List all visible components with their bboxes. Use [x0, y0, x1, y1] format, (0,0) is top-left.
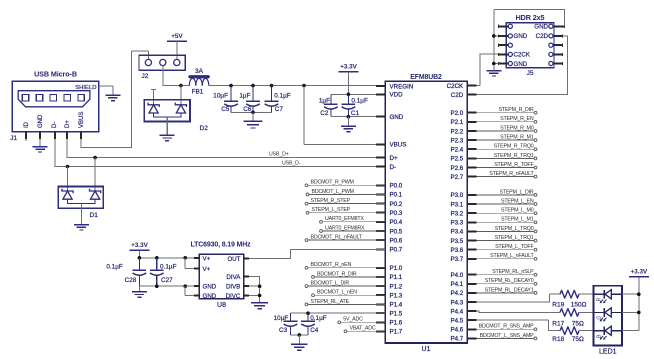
net label STEPM_R_EN at U1 right	[476, 116, 536, 123]
svg-text:STEPM_R_M0: STEPM_R_M0	[500, 125, 534, 131]
svg-text:GND: GND	[390, 114, 404, 121]
svg-text:P0.1: P0.1	[390, 192, 403, 199]
svg-text:P2.3: P2.3	[450, 137, 463, 144]
diode D1 refdes	[90, 212, 99, 219]
wire +5V to J2	[176, 41, 178, 59]
svg-text:D2: D2	[200, 125, 209, 132]
node junction C27 top	[155, 256, 159, 260]
svg-text:STEPM_R_TRQ1: STEPM_R_TRQ1	[494, 153, 534, 159]
svg-text:P3.6: P3.6	[450, 247, 463, 254]
net label BDCMOT_R_PWM at U1 left	[305, 180, 385, 187]
svg-text:VBAT_ADC: VBAT_ADC	[350, 326, 376, 332]
wire C2CK (U1 to J5)	[476, 54, 498, 86]
connector J1 pin stubs	[26, 132, 81, 140]
svg-text:VREGIN: VREGIN	[390, 83, 414, 90]
svg-text:VBUS: VBUS	[79, 112, 85, 128]
svg-text:STEPM_L_EN: STEPM_L_EN	[501, 198, 534, 204]
svg-text:0.1µF: 0.1µF	[106, 264, 123, 271]
svg-text:C6: C6	[243, 106, 252, 113]
LED LED1 refdes	[599, 349, 617, 356]
svg-text:DIVC: DIVC	[226, 293, 241, 300]
svg-text:LTC6930, 8.19 MHz: LTC6930, 8.19 MHz	[191, 242, 252, 249]
node junction D+ / D1	[93, 156, 97, 160]
svg-text:C7: C7	[275, 106, 284, 113]
power +3.3V at LED1	[629, 269, 649, 277]
svg-text:3A: 3A	[195, 68, 204, 75]
wire R19 to LED1	[579, 293, 594, 295]
resistor R18	[560, 327, 579, 335]
net label VBAT_ADC at U1 left	[344, 326, 385, 333]
connector J5 pin label GND row1 right	[534, 24, 548, 31]
svg-text:BDCMOT_L_SNS_AMP: BDCMOT_L_SNS_AMP	[480, 333, 535, 339]
svg-text:D-: D-	[52, 122, 58, 128]
svg-text:C27: C27	[161, 277, 173, 284]
diode D2 body	[144, 100, 190, 122]
net label STEPM_R_M1 at U1 right	[476, 135, 536, 142]
svg-text:C1: C1	[351, 110, 360, 117]
svg-text:P4.1: P4.1	[450, 281, 463, 288]
svg-text:D+: D+	[65, 120, 71, 128]
svg-text:1µF: 1µF	[319, 98, 330, 105]
svg-text:J2: J2	[142, 73, 149, 80]
svg-text:GND: GND	[38, 114, 44, 128]
connector J1 USB Micro-B title	[34, 70, 77, 79]
svg-text:STEPM_L_TRQ1: STEPM_L_TRQ1	[495, 235, 534, 241]
svg-text:UART0_EFM8RX: UART0_EFM8RX	[325, 225, 365, 231]
LED LED1 R element	[594, 290, 623, 304]
connector J1 contact pads	[22, 95, 84, 101]
svg-text:ID: ID	[24, 121, 30, 128]
svg-text:0.1µF: 0.1µF	[351, 98, 368, 105]
svg-text:R18: R18	[552, 336, 564, 343]
wire C3-C4 ground rail	[291, 334, 309, 336]
capacitor C1 refdes	[351, 110, 360, 117]
connector J1 refdes	[10, 135, 17, 142]
svg-text:STEPM_RL_DECAY0: STEPM_RL_DECAY0	[485, 278, 534, 284]
net label STEPM_R_STEP at U1 left	[305, 198, 385, 205]
node junction C6 bottom	[251, 111, 255, 115]
wire U8 GND2 hook	[185, 286, 194, 295]
power +3.3V at U8	[129, 242, 149, 250]
svg-text:P0.4: P0.4	[390, 219, 403, 226]
svg-text:R17: R17	[552, 321, 564, 328]
ferrite bead FB1 refdes	[192, 88, 204, 95]
ground at J1 shield	[105, 95, 120, 100]
net label 5V_ADC at U1 left	[338, 317, 385, 324]
net name USB_D+	[269, 151, 289, 157]
svg-text:STEPM_R_STEP: STEPM_R_STEP	[311, 198, 351, 204]
connector J5 body	[506, 23, 554, 68]
net label STEPM_L_M0 at U1 right	[476, 208, 536, 215]
svg-text:P1.0: P1.0	[390, 265, 403, 272]
svg-text:STEPM_R_nFAULT: STEPM_R_nFAULT	[489, 171, 534, 177]
wire V+ rail (C28 to U8)	[139, 257, 199, 259]
ground at J1 GND pin	[33, 147, 48, 152]
resistor R18 label	[552, 336, 584, 343]
connector J2 body	[139, 55, 185, 70]
svg-text:150Ω: 150Ω	[571, 302, 587, 309]
node junction C27 bottom	[155, 284, 159, 288]
wire C6 to ground	[252, 112, 254, 121]
svg-text:BDCMOT_R_DIR: BDCMOT_R_DIR	[317, 271, 357, 277]
capacitor C27 refdes	[161, 277, 173, 284]
svg-text:R19: R19	[552, 302, 564, 309]
node junction J5 row2	[492, 34, 496, 38]
wire J1 shield to ground	[99, 86, 113, 95]
capacitor C6 symbol	[246, 86, 260, 113]
net label BDCMOT_R_SNS_AMP at U1 right	[476, 324, 536, 331]
svg-text:U1: U1	[422, 346, 431, 353]
svg-text:GND: GND	[203, 293, 217, 300]
net label STEPM_R_M0 at U1 right	[476, 125, 536, 132]
svg-text:P1.4: P1.4	[390, 302, 403, 309]
svg-text:GND: GND	[534, 24, 548, 31]
svg-text:P4.5: P4.5	[450, 318, 463, 325]
svg-text:DIVA: DIVA	[226, 274, 241, 281]
wire VREGIN rail (FB1 to U1 VREGIN)	[209, 85, 385, 87]
wire U8 V+2 hook	[185, 258, 194, 269]
oscillator U8 pin names left	[203, 255, 217, 300]
wire U8 OUT to U1 P0.7	[249, 249, 385, 258]
svg-text:P3.4: P3.4	[450, 229, 463, 236]
node junction C5	[229, 84, 233, 88]
svg-text:C2: C2	[320, 110, 329, 117]
svg-text:0.1µF: 0.1µF	[310, 315, 327, 322]
svg-text:V+: V+	[203, 255, 211, 262]
svg-text:STEPM_RL_nSLP: STEPM_RL_nSLP	[492, 269, 534, 275]
wire U1 P4.4 to R17	[476, 311, 560, 312]
connector J2 refdes	[142, 73, 149, 80]
svg-text:+3.3V: +3.3V	[340, 64, 357, 71]
connector J5 pin label GND row2 left	[514, 33, 528, 40]
svg-text:+3.3V: +3.3V	[630, 269, 647, 276]
svg-text:STEPM_L_STEP: STEPM_L_STEP	[312, 207, 351, 213]
svg-text:BDCMOT_L_PWM: BDCMOT_L_PWM	[312, 189, 354, 195]
capacitor C7 refdes	[275, 106, 284, 113]
IC U1 right pin names	[447, 83, 464, 343]
connector J5 pin label C2D row2 right	[536, 33, 549, 40]
capacitor C28 refdes	[125, 277, 137, 284]
svg-text:P0.6: P0.6	[390, 237, 403, 244]
svg-text:P1.5: P1.5	[390, 311, 403, 318]
svg-text:VDD: VDD	[390, 92, 404, 99]
wire J5 ground rail	[493, 10, 495, 71]
wire C2D (U1 to J5)	[476, 36, 567, 95]
svg-text:STEPM_R_M1: STEPM_R_M1	[500, 135, 534, 141]
oscillator U8 left pin stubs	[194, 258, 199, 296]
node junction C1 top	[347, 93, 351, 97]
node junction VBUS branch	[302, 84, 306, 88]
svg-text:BDCMOT_R_nEN: BDCMOT_R_nEN	[311, 262, 352, 268]
wire J1 ID pin stub end	[25, 139, 27, 141]
net label BDCMOT_L_SNS_AMP at U1 right	[476, 333, 536, 340]
wire U1 P4.5 to R18	[476, 320, 560, 331]
capacitor C6 value	[239, 93, 250, 100]
capacitor C5 symbol	[224, 86, 238, 113]
capacitor C7 symbol	[265, 86, 279, 113]
power +3.3V at U1	[338, 64, 358, 72]
svg-text:10µF: 10µF	[213, 93, 228, 100]
wire USB_D- net (J1 D- to U1 D-)	[55, 139, 386, 166]
wire U8 DIVA-DIVC to ground	[249, 276, 259, 302]
capacitor C4 value	[310, 315, 327, 322]
net label BDCMOT_R_DIR at U1 left	[312, 271, 386, 278]
wire D2 right pin	[180, 86, 182, 105]
wire J5 row5 tap	[494, 63, 499, 65]
net label STEPM_L_TOFF at U1 right	[476, 244, 536, 251]
svg-text:UART0_EFM8TX: UART0_EFM8TX	[325, 216, 364, 222]
svg-text:STEPM_R_TOFF: STEPM_R_TOFF	[494, 162, 534, 168]
svg-text:D1: D1	[90, 212, 99, 219]
svg-text:GND: GND	[514, 61, 528, 68]
resistor R17 label	[552, 321, 584, 328]
svg-text:STEPM_L_TRQ0: STEPM_L_TRQ0	[495, 226, 534, 232]
svg-text:BDCMOT_RL_nFAULT: BDCMOT_RL_nFAULT	[311, 235, 363, 241]
svg-text:P2.1: P2.1	[450, 119, 463, 126]
svg-text:P4.6: P4.6	[450, 327, 463, 334]
wire GND rail (C2 to U1 GND)	[331, 116, 385, 118]
connector J5 HDR 2x5 title	[516, 13, 545, 22]
connector J1 receptacle outline	[18, 91, 90, 107]
diode D1 right element	[90, 189, 101, 199]
ground at U8 DIV pins	[251, 303, 268, 309]
capacitor C27 symbol	[150, 258, 164, 286]
connector J1 SHIELD pin label	[75, 85, 96, 91]
svg-text:BDCMOT_L_nEN: BDCMOT_L_nEN	[317, 290, 357, 296]
capacitor C1 value	[351, 98, 368, 105]
wire D1 right pin	[94, 158, 96, 191]
svg-text:P1.3: P1.3	[390, 293, 403, 300]
svg-text:0.1µF: 0.1µF	[274, 93, 291, 100]
diode D2 right element	[175, 103, 186, 113]
svg-text:STEPM_L_nFAULT: STEPM_L_nFAULT	[490, 253, 534, 259]
oscillator U8 title	[191, 242, 252, 249]
svg-text:P3.5: P3.5	[450, 238, 463, 245]
wire +3.3V to U8 V+ rail	[138, 250, 140, 257]
node junction DIVC	[258, 294, 262, 298]
wire D2 internal anodes	[154, 113, 181, 117]
svg-text:P2.6: P2.6	[450, 165, 463, 172]
net label STEPM_R_TRQ0 at U1 right	[476, 144, 536, 151]
svg-text:P3.2: P3.2	[450, 211, 463, 218]
ground at D2	[160, 135, 175, 140]
connector J1 body	[12, 81, 98, 132]
wire J5 top loop to GND pin	[494, 10, 565, 27]
oscillator U8 body	[199, 254, 244, 299]
capacitor C2 refdes	[320, 110, 329, 117]
net label UART0_EFM8RX at U1 left	[320, 225, 386, 232]
net label STEPM_RL_ATE at U1 left	[305, 299, 385, 306]
svg-text:BDCMOT_L_DIR: BDCMOT_L_DIR	[311, 281, 350, 287]
svg-text:10µF: 10µF	[274, 315, 289, 322]
connector J5 right pin circles	[549, 24, 553, 65]
svg-text:D+: D+	[390, 155, 398, 162]
power +5V at J2	[167, 33, 187, 41]
IC U1 left pin names	[390, 83, 414, 335]
svg-text:P0.5: P0.5	[390, 228, 403, 235]
node junction C7	[270, 84, 274, 88]
capacitor C28 value	[106, 264, 123, 271]
capacitor C2 symbol	[324, 94, 338, 116]
svg-text:C4: C4	[310, 327, 319, 334]
ground at J5	[486, 71, 501, 76]
net label UART0_EFM8TX at U1 left	[320, 216, 386, 223]
svg-text:P4.3: P4.3	[450, 299, 463, 306]
resistor R17	[560, 309, 579, 317]
svg-text:1µF: 1µF	[239, 93, 250, 100]
svg-text:C28: C28	[125, 277, 137, 284]
svg-text:STEPM_L_TOFF: STEPM_L_TOFF	[495, 244, 534, 250]
svg-text:USB Micro-B: USB Micro-B	[34, 70, 77, 79]
IC U1 right pin stubs	[467, 86, 476, 339]
svg-text:J5: J5	[527, 70, 534, 77]
ferrite bead FB1 rating 3A	[195, 68, 204, 75]
wire R17 to LED1	[579, 311, 594, 313]
wire D1 left pin	[67, 167, 69, 192]
capacitor C5 value	[213, 93, 228, 100]
capacitor C5 refdes	[221, 106, 230, 113]
node junction D- / D1	[66, 165, 70, 169]
node junction C1 bottom	[347, 115, 351, 119]
svg-text:0.1µF: 0.1µF	[160, 264, 177, 271]
oscillator U8 right pin stubs	[244, 259, 249, 296]
capacitor C1 symbol	[342, 94, 356, 116]
node junction C4 top	[306, 311, 310, 315]
capacitor C6 refdes	[243, 106, 252, 113]
resistor R19	[560, 290, 579, 298]
wire USB_D+ net (J1 D+ to U1 D+)	[67, 139, 385, 157]
wire VDD rail (C2 to U1 VDD)	[331, 93, 385, 95]
net label STEPM_L_M1 at U1 right	[476, 217, 536, 224]
net label STEPM_R_DIR at U1 right	[476, 107, 536, 114]
svg-text:LED1: LED1	[599, 349, 617, 356]
IC U1 left pin stubs	[376, 86, 385, 331]
svg-text:P4.7: P4.7	[450, 336, 463, 343]
svg-text:P0.2: P0.2	[390, 201, 403, 208]
IC U1 body	[385, 81, 467, 343]
svg-text:+5V: +5V	[171, 33, 183, 40]
net label STEPM_L_STEP at U1 left	[306, 207, 385, 214]
wire P1.5 rail (C3/C4 to U1)	[291, 312, 386, 314]
wire J2 middle pin to FB1 node	[163, 66, 190, 86]
svg-text:STEPM_RL_DECAY1: STEPM_RL_DECAY1	[485, 287, 534, 293]
connector J5 pin label GND row5 left	[514, 61, 528, 68]
capacitor C3 refdes	[279, 327, 288, 334]
ground at C3/C4	[291, 344, 308, 350]
wire J5 row2 tap	[494, 35, 499, 37]
svg-text:P3.1: P3.1	[450, 201, 463, 208]
wire LED +3.3V rail	[638, 277, 640, 331]
net label STEPM_R_TRQ1 at U1 right	[476, 153, 536, 160]
net label STEPM_RL_DECAY1 at U1 right	[476, 287, 536, 294]
wire VBUS (J1 VBUS up to J2)	[81, 51, 148, 147]
wire C3/C4 to ground	[298, 335, 300, 344]
connector J2 pin circles	[145, 59, 180, 65]
svg-text:DIVB: DIVB	[226, 284, 240, 291]
svg-text:D-: D-	[390, 164, 397, 171]
svg-text:P1.7: P1.7	[390, 329, 403, 336]
node junction DIVB	[258, 284, 262, 288]
svg-text:P4.0: P4.0	[450, 272, 463, 279]
svg-text:OUT: OUT	[227, 256, 240, 263]
svg-text:USB_D+: USB_D+	[269, 151, 289, 157]
net label STEPM_L_TRQ1 at U1 right	[476, 235, 536, 242]
svg-text:75Ω: 75Ω	[572, 336, 584, 343]
svg-text:P1.1: P1.1	[390, 274, 403, 281]
connector J5 left pin stubs	[499, 25, 509, 65]
wire J1 GND pin to ground	[39, 139, 41, 146]
node junction J5 row5	[492, 62, 496, 66]
net label STEPM_L_nFAULT at U1 right	[476, 253, 536, 260]
oscillator U8 pin names right	[226, 256, 242, 300]
wire LED1 B to +3.3V rail	[622, 330, 639, 332]
net label STEPM_L_TRQ0 at U1 right	[476, 226, 536, 233]
svg-text:P2.4: P2.4	[450, 147, 463, 154]
svg-text:P3.7: P3.7	[450, 256, 463, 263]
wire LED1 R to +3.3V rail	[622, 293, 639, 295]
connector J5 pin label C2CK row4 left	[514, 52, 531, 59]
svg-text:P0.7: P0.7	[390, 247, 403, 254]
svg-text:STEPM_R_EN: STEPM_R_EN	[500, 116, 534, 122]
svg-text:V+: V+	[203, 266, 211, 273]
diode D2 left element	[148, 103, 159, 113]
wire GND rail (C28 to U8)	[139, 285, 199, 287]
node junction LED rail G	[637, 311, 641, 315]
wire C28 to ground	[138, 286, 140, 292]
svg-text:C2CK: C2CK	[447, 83, 464, 90]
svg-text:5V_ADC: 5V_ADC	[343, 317, 363, 323]
ground at C28	[132, 292, 147, 297]
svg-text:P1.6: P1.6	[390, 320, 403, 327]
svg-text:G: G	[596, 316, 602, 320]
svg-text:HDR 2x5: HDR 2x5	[516, 13, 545, 22]
svg-text:P3.0: P3.0	[450, 192, 463, 199]
net label STEPM_R_TOFF at U1 right	[476, 162, 536, 169]
net label STEPM_L_DIR at U1 right	[476, 189, 536, 196]
node junction C28 top	[138, 256, 142, 260]
svg-text:P4.4: P4.4	[450, 308, 463, 315]
svg-text:VBUS: VBUS	[390, 142, 407, 149]
net label BDCMOT_L_nEN at U1 left	[312, 290, 386, 297]
ferrite bead FB1 coil	[189, 78, 209, 85]
connector J5 refdes	[527, 70, 534, 77]
oscillator U8 refdes	[217, 302, 226, 309]
LED LED1 G element	[594, 308, 623, 322]
net label STEPM_RL_DECAY0 at U1 right	[476, 278, 536, 285]
node junction C3/C4 bottom	[298, 333, 302, 337]
svg-text:STEPM_L_DIR: STEPM_L_DIR	[499, 189, 533, 195]
connector J1 pin name labels	[24, 112, 85, 128]
svg-text:GND: GND	[203, 284, 217, 291]
wire D1 to ground	[80, 203, 82, 224]
connector J5 right pin stubs	[553, 25, 564, 65]
wire LED1 G to +3.3V rail	[622, 311, 639, 313]
svg-text:STEPM_L_M0: STEPM_L_M0	[501, 208, 534, 214]
node VBUS_IN junction	[179, 84, 183, 88]
svg-text:P4.2: P4.2	[450, 290, 463, 297]
ground at D1	[74, 225, 89, 230]
svg-text:U8: U8	[217, 302, 226, 309]
svg-text:USB_D-: USB_D-	[282, 160, 301, 166]
svg-text:P2.7: P2.7	[450, 174, 463, 181]
wire D2 left pin with tee	[151, 90, 156, 105]
capacitor C3 symbol	[284, 313, 298, 335]
ground at C1	[341, 126, 356, 131]
svg-text:BDCMOT_R_PWM: BDCMOT_R_PWM	[311, 180, 354, 186]
svg-text:STEPM_R_DIR: STEPM_R_DIR	[499, 107, 534, 113]
node junction GND hook	[183, 284, 187, 288]
svg-text:BDCMOT_R_SNS_AMP: BDCMOT_R_SNS_AMP	[479, 324, 534, 330]
